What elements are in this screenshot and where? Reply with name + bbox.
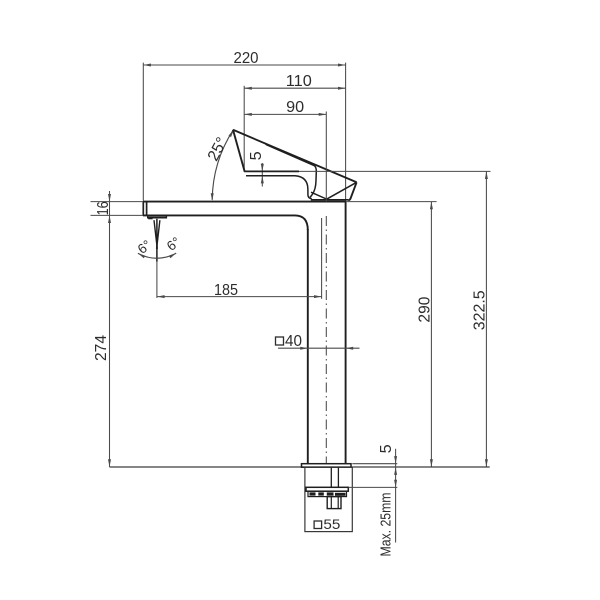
svg-text:5: 5: [248, 151, 265, 160]
6 degree arc left arrowhead: [138, 253, 145, 258]
dimension 290 line with arrows: [430, 202, 433, 467]
svg-text:290: 290: [417, 297, 434, 323]
square-40 right arrowhead (points left at body right edge): [346, 347, 354, 350]
body centerline (dash-dot): [325, 112, 327, 202]
6 degree arc right arrowhead: [169, 253, 176, 258]
spout top edge: [143, 201, 346, 203]
countertop line: [110, 466, 490, 468]
svg-text:16: 16: [95, 201, 112, 215]
body right edge: [345, 202, 347, 464]
counter cutout box: [305, 467, 352, 531]
svg-text:274: 274: [93, 335, 110, 361]
square-55 symbol: [314, 521, 322, 529]
lever bottom edge (right of neck): [311, 199, 348, 201]
aerator outlet ring: [148, 215, 167, 219]
25 degree arc bottom arrowhead: [211, 193, 214, 201]
6 degree arc: [138, 253, 176, 258]
mounting flange lower plate: [308, 491, 347, 496]
extension line to 322.5 dimension: [299, 170, 491, 172]
svg-text:220: 220: [234, 50, 259, 67]
shared left extension line of 110 and 90: [243, 86, 245, 172]
mounting nut outline: [327, 497, 341, 509]
nut inner left line: [330, 497, 332, 509]
dimension 274 bottom arrowhead: [108, 459, 111, 467]
square-40 leader line: [278, 347, 360, 349]
lever right face: [348, 182, 356, 200]
svg-text:185: 185: [214, 282, 238, 299]
shared arrowhead (16 bottom / 274 top): [108, 215, 111, 223]
svg-text:322.5: 322.5: [471, 290, 488, 330]
dimension 110 line with arrows: [244, 87, 345, 90]
spout top left extension line: [91, 201, 144, 203]
spout tip face: [142, 202, 144, 216]
spray cone centerline: [156, 259, 158, 298]
dimension 185 line with arrows: [157, 295, 322, 298]
svg-text:90: 90: [286, 99, 304, 116]
spout bottom edge with corner radius into body: [143, 215, 308, 230]
body left edge: [307, 229, 309, 464]
svg-text:110: 110: [286, 73, 312, 90]
lever V notch right line: [327, 182, 357, 199]
shank left line: [330, 467, 332, 487]
plate top extension line: [352, 463, 397, 465]
5 / max25 shared dimension line: [395, 449, 397, 543]
25 degree arc: [212, 130, 233, 200]
lever top chamfer edge: [265, 143, 316, 197]
spray cone left line: [154, 220, 157, 249]
dimension 5 leader line: [261, 163, 263, 187]
16/274 dimension vertical line: [109, 191, 111, 467]
dimension 322.5 line with arrows: [485, 171, 488, 467]
neck top edge: [246, 176, 312, 199]
lever top edge: [233, 130, 357, 183]
svg-text:Max. 25mm: Max. 25mm: [377, 493, 394, 557]
lever left face: [233, 130, 245, 172]
svg-text:55: 55: [323, 517, 340, 532]
spray cone right line: [157, 220, 160, 249]
flange top extension line: [349, 486, 398, 488]
spout tip inner edge: [146, 202, 148, 216]
dimension 185 right extension line: [321, 218, 323, 299]
dimension 5 lower arrowhead: [261, 176, 264, 184]
dimension 90 line with arrows: [244, 113, 326, 116]
max 25 bottom arrowhead: [394, 480, 397, 488]
spout bottom left extension line: [91, 214, 144, 216]
dimension 5 upper arrowhead: [261, 164, 264, 172]
square-40 symbol: [276, 337, 284, 345]
lever V notch left line: [311, 192, 326, 199]
base 5 upper arrowhead: [394, 456, 397, 464]
base 5 lower arrowhead: [394, 467, 397, 475]
flange thread dashes: [310, 492, 346, 495]
mounting flange upper plate: [306, 487, 348, 491]
spout top right extension line (290 dim): [346, 201, 437, 203]
base plate outline: [302, 464, 352, 468]
svg-text:5: 5: [378, 444, 395, 453]
square-40 left arrowhead (points right at body left edge): [300, 347, 308, 350]
nut inner right line: [337, 497, 339, 509]
svg-text:40: 40: [285, 333, 302, 350]
25 degree arc top arrowhead: [229, 130, 234, 137]
dimension 220 line with arrows: [143, 64, 345, 67]
dimension 220 left extension line: [142, 63, 144, 201]
shank right line: [337, 467, 339, 487]
dimension 16 top arrowhead: [108, 194, 111, 202]
right extension line (220/110) above body: [345, 63, 347, 202]
lever underside line: [244, 170, 299, 172]
